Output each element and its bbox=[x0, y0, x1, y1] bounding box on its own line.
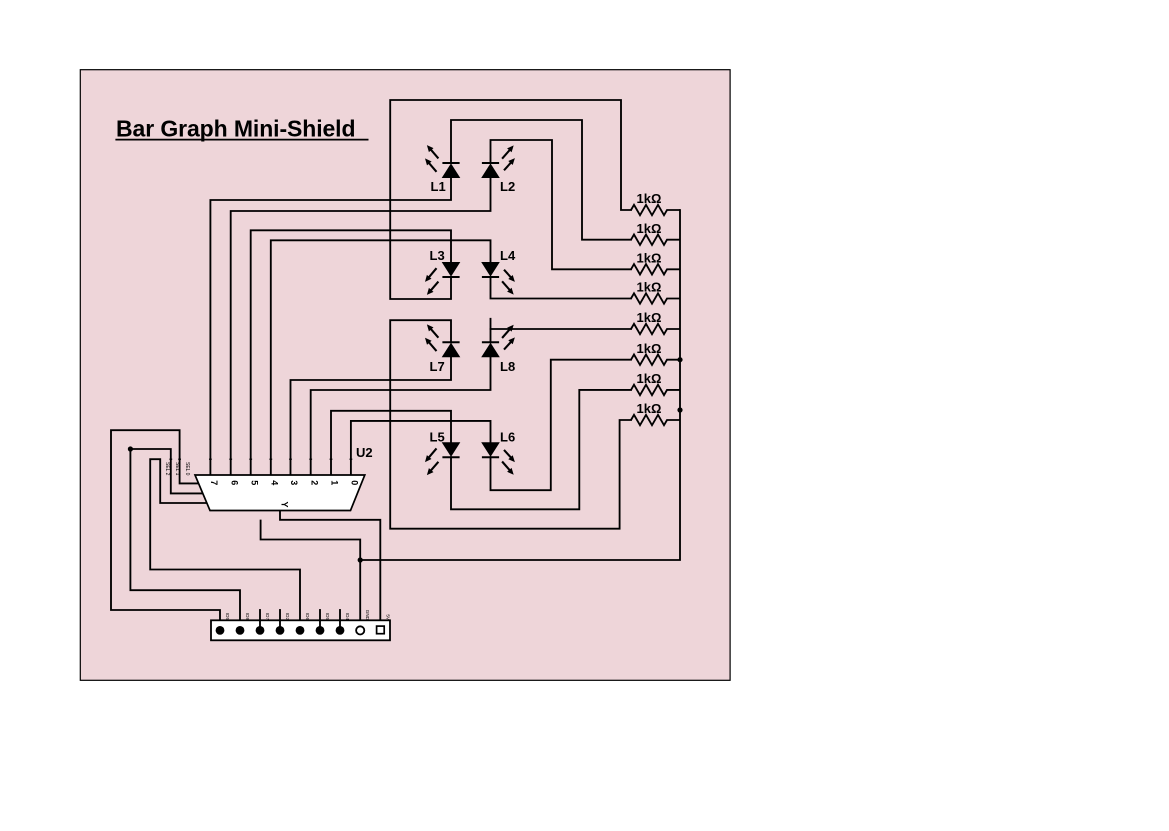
pin tick bbox=[169, 459, 172, 460]
svg-text:L7: L7 bbox=[430, 359, 445, 374]
svg-text:1kΩ: 1kΩ bbox=[637, 310, 662, 325]
wire L5 cathode to R7 bbox=[451, 390, 631, 509]
wire mux pin2 to L8 anode bbox=[311, 358, 491, 475]
wire mux pin5 to L3 anode bbox=[251, 230, 451, 475]
connector pin 8 (open) bbox=[356, 626, 364, 634]
svg-text:5V: 5V bbox=[385, 614, 390, 621]
LED L2 bbox=[482, 145, 515, 194]
wire connector stub x=320 bbox=[319, 610, 321, 626]
wire mux pin4 to L4 anode bbox=[271, 240, 491, 475]
wire connector stub x=260 bbox=[259, 610, 261, 626]
svg-text:7: 7 bbox=[209, 480, 219, 485]
svg-text:L3: L3 bbox=[430, 248, 445, 263]
wire SEL1 to connector pin2 bbox=[130, 449, 240, 626]
connector pin 1 bbox=[216, 626, 225, 635]
connector pin 7 bbox=[336, 626, 345, 635]
svg-text:2: 2 bbox=[309, 480, 319, 485]
wire enable to connector pin8 bbox=[261, 521, 361, 627]
junction dot SEL1 bend bbox=[128, 446, 133, 451]
svg-text:IO5: IO5 bbox=[325, 613, 330, 621]
wire mux pin3 to L7 anode bbox=[291, 358, 452, 475]
resistor R2 1kΩ bbox=[631, 235, 680, 245]
wire L8 cathode pin stub bbox=[490, 319, 492, 343]
LED L1 bbox=[425, 145, 460, 194]
svg-text:SEL 0: SEL 0 bbox=[184, 462, 190, 476]
svg-text:L5: L5 bbox=[430, 430, 445, 445]
wire L2 cathode to R3 bbox=[491, 140, 632, 269]
wire connector stub x=280 bbox=[279, 610, 281, 626]
wire SEL2 to connector pin1 bbox=[111, 430, 220, 626]
resistor R3 1kΩ bbox=[631, 264, 680, 274]
LED L4 bbox=[482, 248, 516, 295]
LED L6 bbox=[482, 430, 515, 475]
svg-text:Bar Graph Mini-Shield: Bar Graph Mini-Shield bbox=[116, 115, 355, 141]
wire L4 cathode to R4 bbox=[491, 277, 632, 299]
junction dot bus R6 bbox=[677, 357, 682, 362]
svg-text:IO7: IO7 bbox=[265, 613, 270, 621]
multiplexer U2 body bbox=[195, 475, 365, 511]
pin tick bbox=[269, 459, 272, 460]
connector pin 9 (square) bbox=[377, 626, 385, 634]
wire SEL0 to connector pin5 bbox=[150, 459, 300, 626]
junction dot bus R8 bbox=[677, 407, 682, 412]
resistor R6 1kΩ bbox=[631, 355, 680, 365]
wire ground bus to resistors bbox=[360, 210, 680, 560]
pin tick bbox=[330, 459, 333, 460]
pin tick bbox=[229, 459, 232, 460]
wire L6 cathode to R6 bbox=[491, 360, 632, 491]
wire L3 cathode to R1 bbox=[390, 100, 631, 299]
svg-text:1kΩ: 1kΩ bbox=[637, 251, 662, 266]
connector J1 body bbox=[211, 620, 390, 640]
wire mux pin7 to L1 anode bbox=[210, 178, 451, 475]
pin tick bbox=[209, 459, 212, 460]
connector pin 3 bbox=[256, 626, 265, 635]
resistor R4 1kΩ bbox=[631, 293, 680, 303]
svg-text:IO2: IO2 bbox=[285, 613, 290, 621]
svg-text:1kΩ: 1kΩ bbox=[637, 280, 662, 295]
svg-text:1kΩ: 1kΩ bbox=[637, 371, 662, 386]
resistor R5 1kΩ bbox=[631, 324, 680, 334]
wire L8 cathode to R5 bbox=[491, 328, 632, 330]
svg-text:0: 0 bbox=[350, 480, 360, 485]
LED L8 bbox=[482, 325, 515, 374]
svg-text:L2: L2 bbox=[500, 179, 515, 194]
svg-text:Y: Y bbox=[279, 501, 289, 507]
svg-text:1kΩ: 1kΩ bbox=[637, 221, 662, 236]
pin tick bbox=[289, 459, 292, 460]
svg-text:1kΩ: 1kΩ bbox=[637, 191, 662, 206]
svg-text:6: 6 bbox=[229, 480, 239, 485]
svg-text:L1: L1 bbox=[431, 179, 446, 194]
svg-text:GND: GND bbox=[365, 610, 370, 621]
pin tick bbox=[178, 459, 181, 460]
resistor R1 1kΩ bbox=[631, 205, 680, 215]
svg-text:3: 3 bbox=[289, 480, 299, 485]
svg-text:1kΩ: 1kΩ bbox=[637, 341, 662, 356]
svg-text:L8: L8 bbox=[500, 359, 515, 374]
LED L7 bbox=[425, 324, 460, 374]
pin tick bbox=[309, 459, 312, 460]
LED L3 bbox=[425, 248, 460, 295]
wire Y output to connector pin9 bbox=[280, 511, 380, 627]
svg-text:1kΩ: 1kΩ bbox=[637, 401, 662, 416]
svg-text:IO5: IO5 bbox=[225, 613, 230, 621]
svg-text:IO8: IO8 bbox=[245, 613, 250, 621]
pink schematic panel bbox=[80, 70, 730, 681]
svg-text:SEL 2: SEL 2 bbox=[164, 462, 170, 476]
svg-text:L6: L6 bbox=[500, 430, 515, 445]
svg-text:4: 4 bbox=[269, 480, 279, 485]
resistor R8 1kΩ bbox=[631, 415, 680, 425]
svg-text:SEL 1: SEL 1 bbox=[174, 462, 180, 476]
svg-text:IO4: IO4 bbox=[345, 613, 350, 621]
svg-text:L4: L4 bbox=[500, 248, 516, 263]
wire mux pin1 to L5 anode bbox=[331, 411, 451, 475]
resistor R7 1kΩ bbox=[631, 385, 680, 395]
wire mux pin0 to L6 anode bbox=[351, 421, 491, 475]
connector pin 5 bbox=[296, 626, 305, 635]
svg-text:IO6: IO6 bbox=[305, 613, 310, 621]
pin tick bbox=[350, 459, 353, 460]
connector pin 2 bbox=[236, 626, 245, 635]
wire L7 cathode to R8 bbox=[390, 320, 631, 529]
svg-text:5: 5 bbox=[249, 480, 259, 485]
svg-text:1: 1 bbox=[330, 480, 340, 485]
LED L5 bbox=[425, 430, 460, 476]
wire connector stub x=340 bbox=[339, 610, 341, 626]
connector pin 6 bbox=[316, 626, 325, 635]
svg-text:U2: U2 bbox=[356, 445, 373, 460]
connector pin 4 bbox=[276, 626, 285, 635]
wire L1 cathode to R2 bbox=[451, 120, 631, 240]
junction dot ground node bbox=[358, 557, 363, 562]
pin tick bbox=[249, 459, 252, 460]
wire mux pin6 to L2 anode bbox=[231, 178, 491, 475]
